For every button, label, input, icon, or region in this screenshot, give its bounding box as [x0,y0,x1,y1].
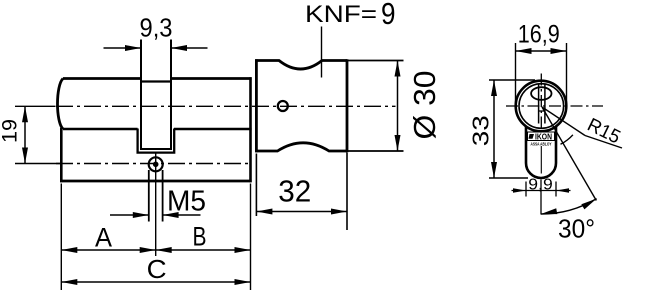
svg-text:IKON: IKON [535,132,552,141]
svg-text:16,9: 16,9 [518,21,560,49]
screw axis extension down to A-B junction [155,172,157,257]
dim 32 left arrow [256,209,272,215]
svg-text:KNF=: KNF= [305,1,377,28]
dim 33 extension bottom [489,177,528,179]
screw hole axis center line [56,163,250,165]
dim A right arrow at junction [140,247,156,253]
dim 32 right arrow [331,209,347,215]
screw shank left tangent line [148,170,150,222]
keyway bulb [531,87,551,100]
dim 33 extension top [489,79,535,81]
dim 16,9 arrow right [551,48,567,54]
dim 19 line [24,106,26,163]
dim 32 line [256,211,347,213]
dim 9,9 extension right [555,182,557,197]
fixing screw hole circle [149,157,163,171]
dim M5 left arrow line [110,214,149,216]
dim C line [61,281,250,283]
front view outer circle [516,81,567,132]
R15 leader line [542,107,585,136]
dim 9,3 extension stub left [104,47,142,49]
cylinder right end face [249,77,252,182]
cam inner bottom [140,148,172,150]
dim C left arrow [61,279,77,285]
IKON logo glyph [529,134,535,139]
dim 19 extension tick top [15,105,56,107]
knob left face [255,59,258,152]
dim 19 extension tick bottom [15,163,62,165]
IKON logo box [528,132,555,141]
dim 16,9 arrow left [516,48,532,54]
front view profile foot [526,127,556,178]
svg-text:30°: 30° [558,214,595,244]
extension line right for B C [250,184,252,291]
svg-text:C: C [147,254,167,284]
svg-text:9,9: 9,9 [528,177,553,194]
front view horizontal center line [506,105,603,107]
R15 leader underline segment [585,136,622,149]
dim A left arrow [61,247,77,253]
svg-text:M5: M5 [167,186,206,218]
svg-text:9: 9 [381,0,396,31]
dim diameter 30 arrow down [395,135,401,151]
dim 9,3 arrow right [171,45,187,51]
clutch middle section top edge [141,80,171,82]
svg-text:9,3: 9,3 [140,13,173,43]
cylinder barrel rounded left end [57,79,63,130]
dim diameter 30 extension top [347,60,404,62]
screw shank right tangent line [162,170,164,222]
front view inner circle [519,84,564,129]
clutch middle section left edge / 9,3 extension [140,40,142,150]
dim diameter 30 extension bottom [347,150,404,152]
dim B left arrow at junction [156,247,172,253]
fixing screw center dot [153,162,159,168]
keyway slot tick [539,110,545,112]
dim M5 right arrow line [163,214,201,216]
svg-text:Ø 30: Ø 30 [407,71,442,140]
dim 19 arrow up [22,106,28,122]
dim A B shared line [61,249,250,251]
dim 9,3 arrow left [125,45,141,51]
cylinder body bottom edge [60,180,252,183]
angle 30 arc arrow left [540,208,557,217]
svg-text:33: 33 [468,115,494,146]
dim 33 arrow down [491,162,497,178]
knob top edge with concave waist [255,61,347,70]
KNF leader line [321,27,323,78]
svg-text:32: 32 [278,173,311,208]
dim 9,3 extension stub right [171,47,208,49]
cylinder barrel bottom edge right half [174,128,252,131]
screw axis vertical line [155,153,157,172]
svg-text:19: 19 [0,119,22,143]
dim 9,9 line [512,190,571,192]
R15 arc [561,135,573,145]
svg-text:ASSA ABLOY: ASSA ABLOY [531,142,552,147]
main axis center line [56,105,396,107]
extension line left for A C [60,184,62,291]
dim 9,9 extension left [525,182,527,197]
dim C right arrow [235,279,251,285]
angle 30 slanted line [542,107,596,201]
keyway slot right line [544,84,546,124]
knob right face [346,59,349,152]
cylinder barrel top edge right half [171,77,252,80]
front view vertical center line [540,74,542,131]
knob bottom edge with concave waist [255,143,347,151]
dim M5 left arrowhead [133,212,149,218]
angle 30 arc arrow right [581,196,598,209]
dim diameter 30 arrow up [395,61,401,77]
keyway slot left line [538,84,540,124]
clutch middle section right edge / 9,3 extension [170,40,172,150]
cylinder barrel bottom edge left half [63,128,138,131]
dim 33 arrow up [491,80,497,96]
angle 30 vertical extension [540,180,542,215]
dim 9,9 arrow left [513,188,526,192]
dim 9,9 arrow right [556,188,569,192]
knob pin hole [278,101,288,111]
cylinder body left edge [60,128,63,182]
dim 16,9 extension left [515,43,517,104]
cylinder barrel top edge left half [63,77,141,80]
dim B right arrow [235,247,251,253]
dim 16,9 line [516,50,567,52]
cam outer outline [138,129,175,153]
dim M5 right arrowhead [163,212,179,218]
svg-text:A: A [95,223,112,253]
dim 32 extension right / knob edge extension [346,153,348,231]
dim 16,9 extension right [566,43,568,104]
angle 30 arc [541,199,597,214]
dim 32 extension left [255,154,257,217]
dim 19 arrow down [22,148,28,164]
dim diameter 30 line [397,61,399,152]
svg-text:B: B [193,222,207,252]
front view foot center line [540,146,542,174]
dim 33 line [493,80,495,178]
